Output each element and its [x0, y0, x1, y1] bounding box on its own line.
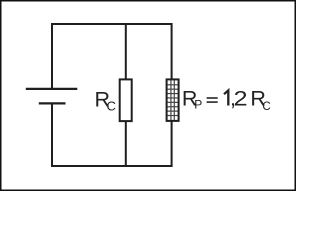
svg-text:C: C: [107, 99, 116, 114]
svg-text:C: C: [262, 101, 270, 113]
svg-text:2: 2: [234, 86, 248, 110]
svg-text:P: P: [194, 97, 202, 111]
